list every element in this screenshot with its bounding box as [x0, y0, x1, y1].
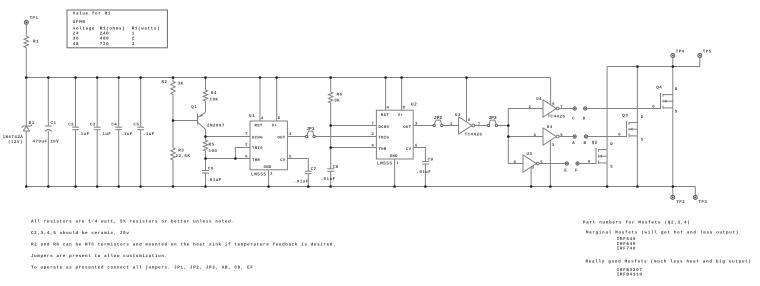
svg-text:C2,3,4,5 should be ceramic, 25: C2,3,4,5 should be ceramic, 25v — [31, 230, 130, 236]
svg-text:100: 100 — [209, 149, 218, 154]
svg-text:V+: V+ — [272, 124, 278, 129]
svg-text:F: F — [575, 169, 578, 174]
svg-text:To operate as presented connec: To operate as presented connect all jump… — [31, 264, 254, 270]
svg-text:6: 6 — [245, 154, 248, 159]
svg-text:6: 6 — [552, 102, 555, 107]
svg-text:7: 7 — [478, 122, 481, 127]
svg-text:Q2: Q2 — [592, 141, 598, 146]
svg-text:7: 7 — [371, 121, 374, 126]
svg-text:7: 7 — [245, 132, 248, 137]
svg-text:2: 2 — [528, 105, 531, 110]
svg-text:C6: C6 — [208, 166, 214, 171]
svg-text:R5: R5 — [209, 143, 215, 148]
svg-text:10K: 10K — [210, 98, 219, 103]
svg-text:1: 1 — [396, 161, 399, 166]
svg-text:TP4: TP4 — [676, 50, 685, 55]
svg-text:3: 3 — [552, 143, 555, 148]
svg-text:JP2: JP2 — [434, 115, 443, 121]
svg-text:.01uF: .01uF — [321, 177, 336, 182]
svg-text:.1uF: .1uF — [78, 132, 90, 137]
svg-text:2: 2 — [245, 143, 248, 148]
svg-text:.01uF: .01uF — [416, 170, 431, 175]
svg-text:4: 4 — [513, 160, 516, 165]
svg-text:Really good Mosfets (much less: Really good Mosfets (much less heat and … — [586, 259, 752, 265]
svg-text:V+: V+ — [398, 113, 404, 118]
svg-text:7: 7 — [560, 105, 563, 110]
svg-text:C: C — [572, 116, 575, 121]
svg-text:Q1: Q1 — [191, 105, 197, 110]
svg-text:CV: CV — [406, 147, 412, 152]
svg-text:6: 6 — [371, 143, 374, 148]
svg-text:C5: C5 — [133, 123, 139, 128]
svg-text:U2: U2 — [411, 103, 417, 108]
svg-text:G: G — [588, 160, 591, 165]
svg-text:8: 8 — [403, 105, 406, 110]
svg-text:U3: U3 — [455, 113, 461, 118]
svg-text:R6: R6 — [337, 93, 343, 98]
svg-text:.1uF: .1uF — [143, 132, 155, 137]
svg-text:R2 and R6 can be NTC termistor: R2 and R6 can be NTC termistors and moun… — [31, 241, 336, 247]
svg-text:3K: 3K — [334, 99, 340, 104]
svg-text:C1: C1 — [51, 121, 57, 126]
svg-text:Q4: Q4 — [656, 86, 662, 91]
svg-text:OUT: OUT — [403, 125, 411, 130]
svg-text:Part numbers for Mosfets (Q2,3: Part numbers for Mosfets (Q2,3,4) — [583, 219, 691, 225]
svg-text:R3: R3 — [178, 149, 184, 154]
svg-text:3K: 3K — [178, 82, 184, 87]
svg-text:TP2: TP2 — [676, 200, 685, 205]
svg-text:G: G — [618, 133, 621, 138]
svg-text:1N4742A: 1N4742A — [3, 135, 24, 140]
svg-text:U1: U1 — [249, 114, 255, 119]
svg-text:THR: THR — [252, 158, 260, 163]
svg-text:TRIG: TRIG — [378, 135, 389, 140]
svg-text:D: D — [641, 115, 644, 120]
svg-text:XFMR: XFMR — [73, 20, 86, 25]
svg-text:Q3: Q3 — [622, 114, 628, 119]
svg-text:S: S — [641, 137, 644, 142]
svg-text:22.6K: 22.6K — [176, 154, 191, 159]
svg-text:LM555: LM555 — [377, 162, 392, 167]
svg-text:Marginal Mosfets (will get hot: Marginal Mosfets (will get hot and less … — [586, 230, 739, 236]
svg-text:TP5: TP5 — [703, 50, 712, 55]
svg-text:R4: R4 — [211, 91, 217, 96]
svg-text:voltageR1(ohms)R1(watts): voltageR1(ohms)R1(watts) — [73, 26, 161, 32]
svg-text:TP3: TP3 — [698, 200, 707, 205]
svg-text:2N2907: 2N2907 — [207, 124, 225, 129]
svg-text:JP3: JP3 — [488, 115, 497, 121]
svg-text:.1uF: .1uF — [99, 132, 111, 137]
svg-text:GND: GND — [390, 154, 398, 159]
svg-text:All resistors are 1/4 watt, 5%: All resistors are 1/4 watt, 5% resistors… — [31, 218, 234, 224]
svg-text:D: D — [583, 116, 586, 121]
svg-text:5: 5 — [560, 133, 563, 138]
svg-text:C2: C2 — [68, 123, 74, 128]
svg-text:Value for R1: Value for R1 — [73, 10, 111, 16]
svg-text:A: A — [572, 141, 575, 146]
svg-text:4: 4 — [261, 116, 264, 121]
svg-text:C3: C3 — [90, 123, 96, 128]
svg-text:.01uF: .01uF — [207, 178, 222, 183]
svg-text:TP1: TP1 — [30, 16, 39, 21]
svg-text:S: S — [675, 109, 678, 114]
svg-text:5: 5 — [540, 160, 543, 165]
svg-text:CV: CV — [280, 158, 286, 163]
svg-text:RST: RST — [381, 113, 389, 118]
svg-text:U4: U4 — [536, 97, 542, 102]
svg-text:RST: RST — [255, 124, 263, 129]
svg-text:R1: R1 — [33, 40, 39, 45]
svg-text:U3: U3 — [526, 152, 532, 157]
svg-text:D1: D1 — [29, 121, 35, 126]
svg-text:LM555: LM555 — [251, 172, 266, 177]
svg-text:3: 3 — [532, 165, 535, 170]
svg-text:TC4426: TC4426 — [548, 114, 566, 119]
svg-text:C7: C7 — [311, 167, 317, 172]
svg-text:G: G — [652, 105, 655, 110]
svg-text:JP1: JP1 — [306, 126, 315, 132]
svg-text:4: 4 — [387, 105, 390, 110]
svg-text:DCHG: DCHG — [252, 136, 263, 141]
svg-text:C9: C9 — [428, 157, 434, 162]
svg-text:GND: GND — [264, 165, 272, 170]
svg-text:2: 2 — [450, 122, 453, 127]
svg-text:C4: C4 — [111, 123, 117, 128]
svg-text:E: E — [564, 169, 567, 174]
svg-text:6: 6 — [468, 118, 471, 123]
svg-text:16V: 16V — [50, 139, 59, 144]
svg-text:470uF: 470uF — [33, 139, 48, 144]
svg-text:4: 4 — [533, 133, 536, 138]
svg-text:IRFB4110: IRFB4110 — [617, 273, 643, 278]
svg-text:Jumpers are present to allow c: Jumpers are present to allow customizati… — [31, 253, 168, 259]
svg-text:D: D — [610, 142, 613, 147]
svg-text:U4: U4 — [547, 125, 553, 130]
svg-text:B: B — [584, 141, 587, 146]
svg-text:2: 2 — [371, 132, 374, 137]
svg-text:THR: THR — [378, 147, 386, 152]
svg-text:.1uF: .1uF — [121, 132, 133, 137]
svg-text:TRIG: TRIG — [252, 146, 263, 151]
svg-text:OUT: OUT — [277, 136, 285, 141]
svg-text:C8: C8 — [333, 165, 339, 170]
svg-text:IRF740: IRF740 — [617, 246, 637, 251]
svg-text:D: D — [675, 87, 678, 92]
svg-text:1: 1 — [270, 172, 273, 177]
svg-text:R2: R2 — [162, 80, 168, 85]
svg-text:.01uF: .01uF — [294, 180, 309, 185]
svg-text:S: S — [610, 164, 613, 169]
svg-text:DCHG: DCHG — [378, 125, 389, 130]
svg-text:8: 8 — [278, 116, 281, 121]
svg-text:TC4426: TC4426 — [465, 132, 483, 137]
